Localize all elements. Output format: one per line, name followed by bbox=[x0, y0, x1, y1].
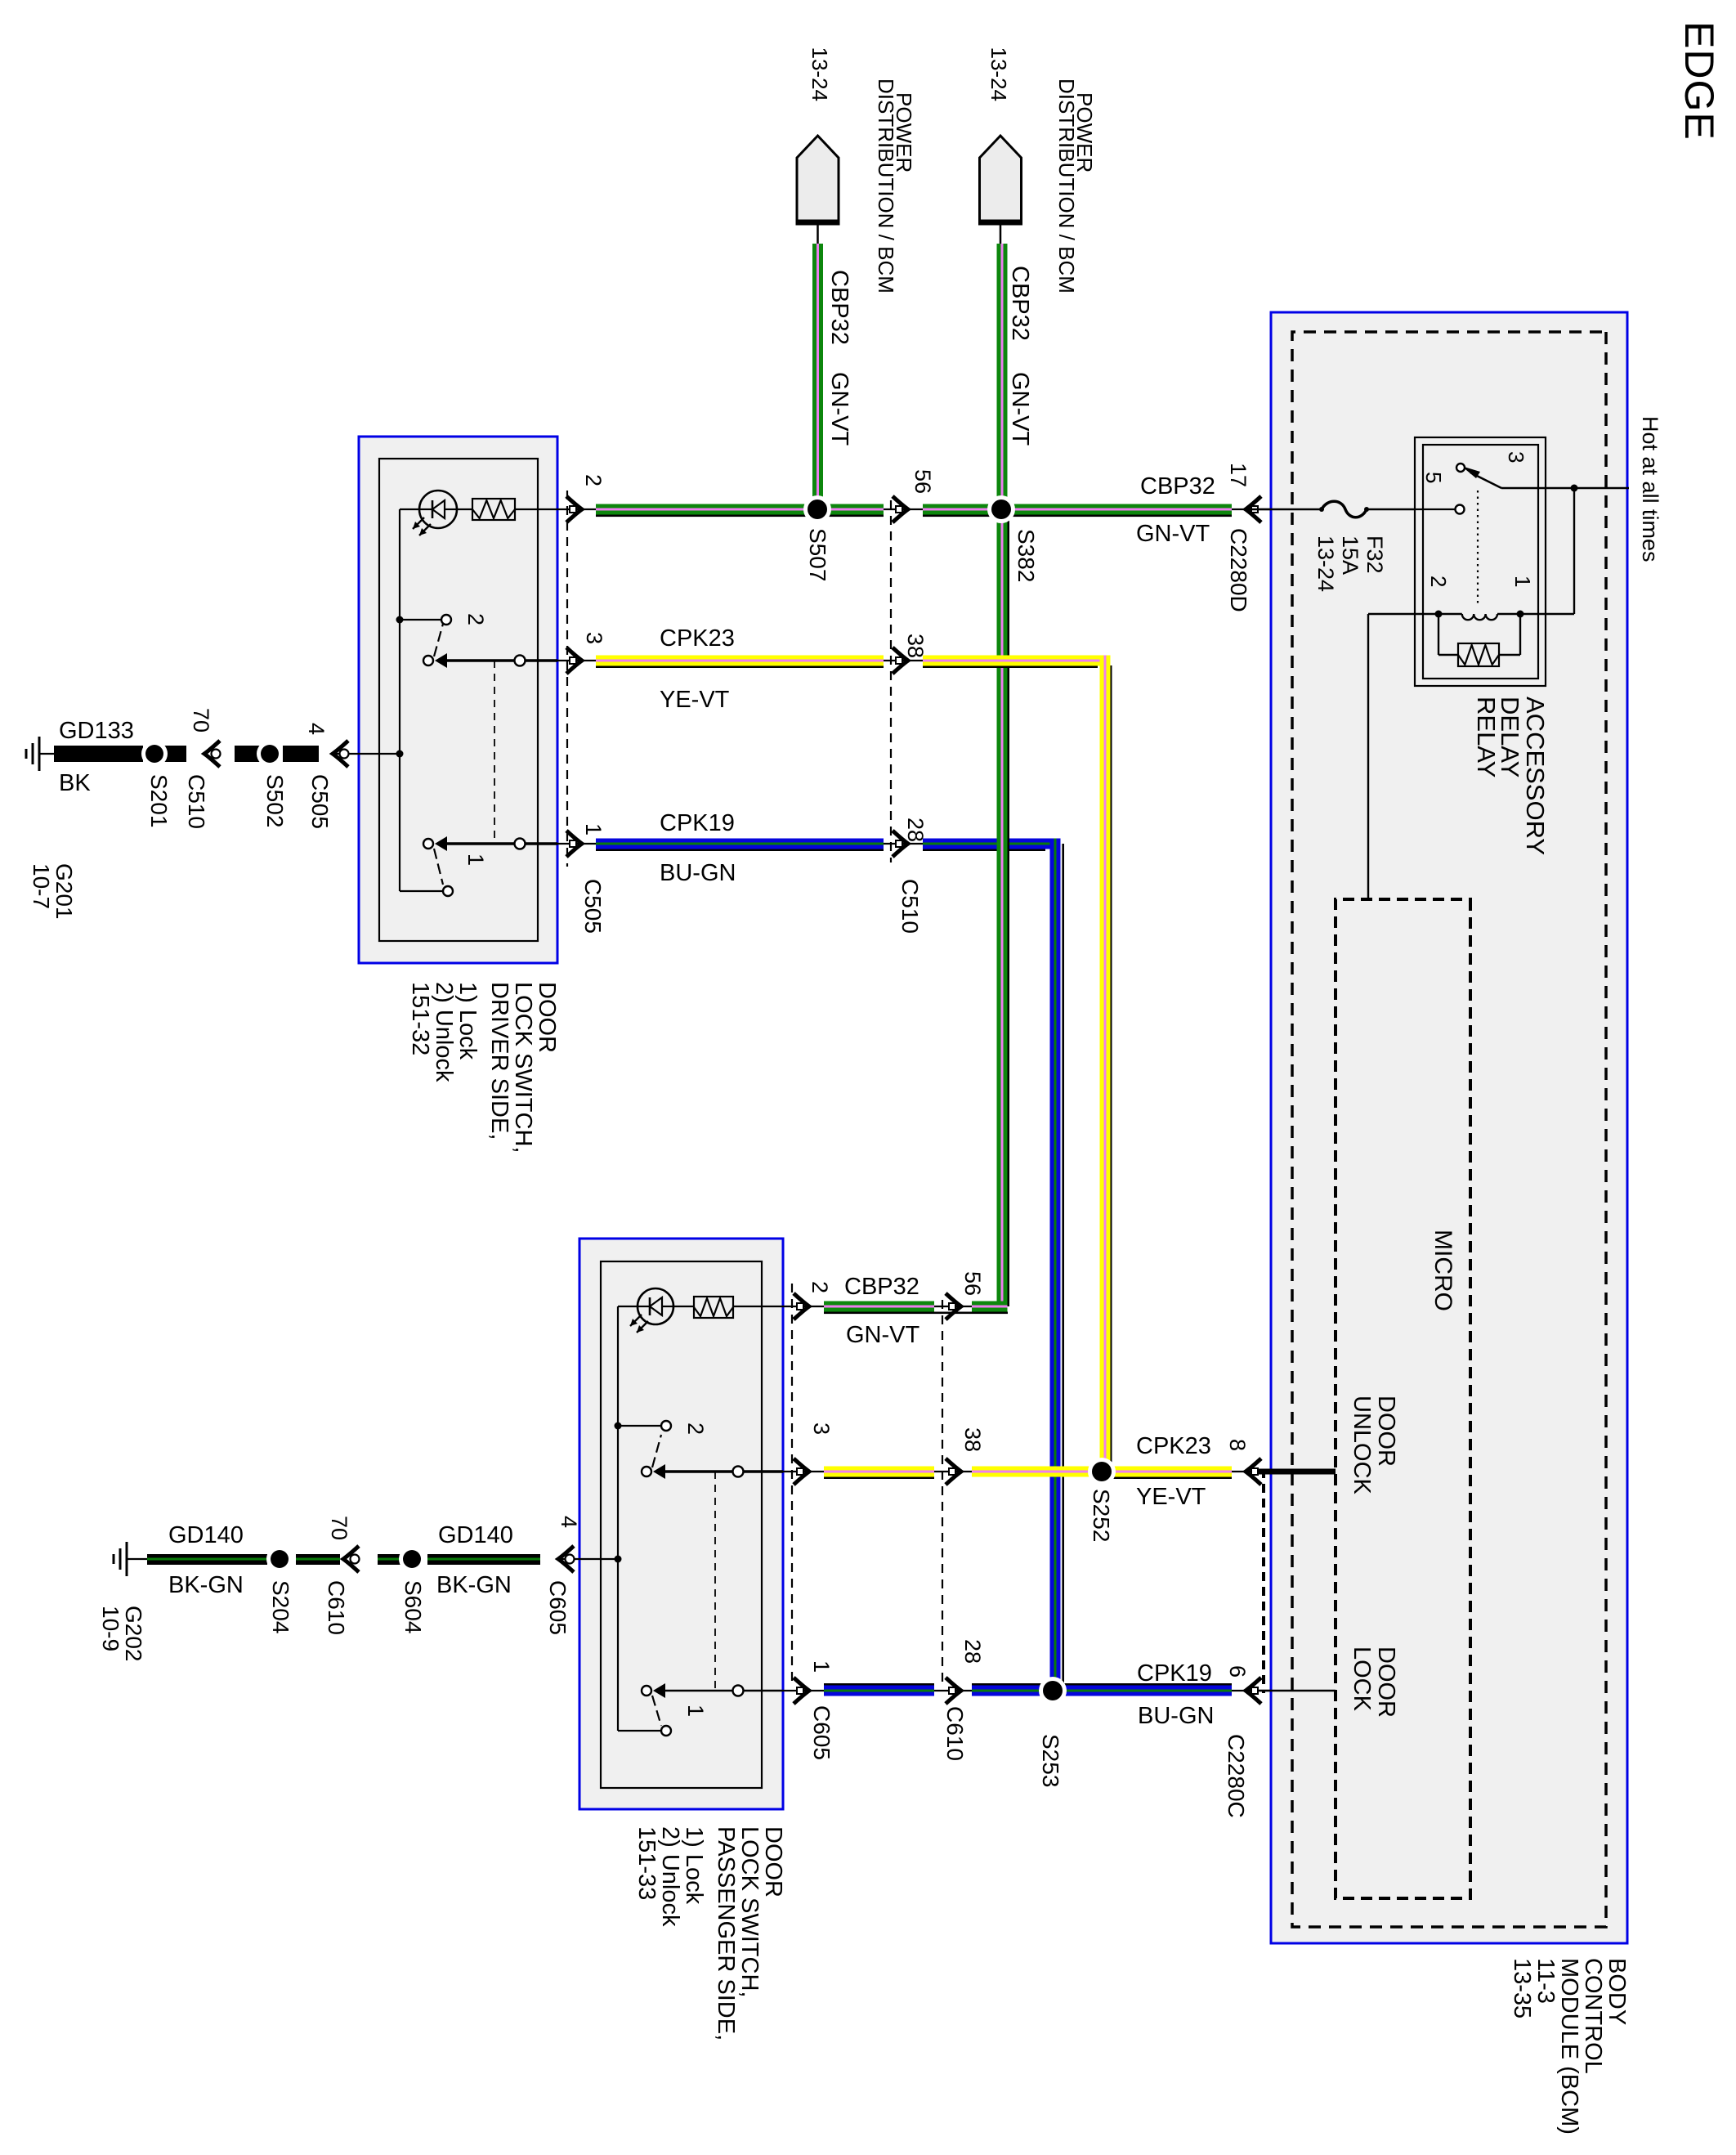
arrow 17 C2280D bbox=[1246, 496, 1261, 522]
svg-text:3: 3 bbox=[1504, 451, 1528, 463]
svg-text:CPK19: CPK19 bbox=[660, 810, 735, 836]
wire CBP32 pentagon1 horizontal bbox=[812, 244, 823, 500]
passenger switch 1 throw corner bbox=[618, 1730, 661, 1732]
wire CPK23 horizontal run to S252 bbox=[1110, 665, 1112, 1478]
svg-text:CPK23: CPK23 bbox=[1136, 1433, 1211, 1459]
connector C605 dashed line bbox=[791, 1284, 793, 1681]
svg-text:1: 1 bbox=[1510, 576, 1535, 587]
connector arrow to POWER DISTRIBUTION/BCM (S507 feed) bbox=[797, 136, 839, 222]
arrow pin1 passenger bbox=[794, 1678, 809, 1704]
svg-text:MODULE (BCM): MODULE (BCM) bbox=[1556, 1958, 1582, 2135]
arrow 38 C510 bbox=[893, 647, 908, 674]
passenger switch 2 throw contact bbox=[661, 1421, 671, 1431]
svg-text:5: 5 bbox=[1421, 472, 1446, 483]
door lock switch driver side box bbox=[359, 437, 557, 963]
svg-text:11-3: 11-3 bbox=[1532, 1958, 1559, 2004]
wire CPK19 BU-GN driver vertical bbox=[557, 843, 596, 845]
node coil feed junction bbox=[1571, 485, 1578, 492]
svg-text:6: 6 bbox=[1225, 1665, 1250, 1678]
svg-text:C510: C510 bbox=[184, 774, 209, 829]
svg-text:3: 3 bbox=[809, 1422, 834, 1435]
svg-text:1: 1 bbox=[581, 823, 606, 836]
svg-text:LOCK: LOCK bbox=[1349, 1646, 1375, 1712]
splice S252 bbox=[1088, 1458, 1116, 1485]
svg-text:S604: S604 bbox=[400, 1580, 426, 1633]
wire stub pentagon1 bbox=[817, 222, 819, 245]
wire GD140 BK-GN ground chain bbox=[558, 1558, 579, 1560]
svg-text:C510: C510 bbox=[897, 879, 923, 934]
svg-text:UNLOCK: UNLOCK bbox=[1349, 1396, 1375, 1495]
relay pin2 wire to MICRO bbox=[1368, 613, 1438, 615]
svg-text:13-24: 13-24 bbox=[808, 47, 832, 102]
svg-text:2) Unlock: 2) Unlock bbox=[657, 1826, 683, 1927]
svg-text:13-24: 13-24 bbox=[1313, 535, 1338, 592]
BCM pin 6 stub DOOR LOCK bbox=[1258, 1690, 1336, 1692]
splice S507 bbox=[803, 495, 831, 523]
arrow 56 C610 bbox=[946, 1293, 961, 1319]
relay blade and pivot bbox=[1470, 473, 1501, 488]
wire CPK23 YE-VT driver vertical bbox=[557, 660, 596, 661]
svg-text:10-7: 10-7 bbox=[29, 863, 54, 909]
node bus-throw2 bbox=[396, 616, 404, 624]
svg-text:13-35: 13-35 bbox=[1509, 1958, 1535, 2018]
svg-text:S382: S382 bbox=[1013, 529, 1039, 582]
svg-text:56: 56 bbox=[911, 469, 935, 494]
svg-text:10-9: 10-9 bbox=[98, 1606, 123, 1651]
svg-text:S252: S252 bbox=[1089, 1489, 1114, 1542]
svg-text:C605: C605 bbox=[809, 1705, 834, 1760]
svg-text:S502: S502 bbox=[262, 774, 288, 827]
passenger internal dashed bbox=[714, 1472, 716, 1691]
wire stub pentagon2 bbox=[1000, 222, 1002, 245]
svg-text:CONTROL: CONTROL bbox=[1580, 1958, 1606, 2074]
arrow pin2 passenger bbox=[794, 1293, 809, 1319]
svg-text:GN-VT: GN-VT bbox=[1007, 372, 1033, 446]
MICRO dashed box bbox=[1336, 899, 1470, 1898]
wire CBP32 passenger vertical feed bbox=[824, 1312, 1008, 1315]
svg-text:13-24: 13-24 bbox=[987, 47, 1011, 102]
svg-text:S253: S253 bbox=[1038, 1734, 1063, 1787]
splice S382 bbox=[987, 495, 1015, 523]
svg-text:2: 2 bbox=[463, 613, 488, 625]
hot feed wire from Hot at all times bbox=[1501, 487, 1629, 489]
svg-text:S201: S201 bbox=[146, 774, 172, 827]
svg-text:C2280D: C2280D bbox=[1226, 528, 1251, 612]
in-line connector C610 ground bbox=[343, 1546, 359, 1572]
relay armature dotted line bbox=[1477, 491, 1479, 607]
body control module BCM box bbox=[1271, 312, 1627, 1943]
relay switch contact pin5 bbox=[1415, 509, 1455, 510]
svg-text:151-33: 151-33 bbox=[633, 1826, 660, 1900]
driver switch 1 (lock) bbox=[423, 839, 433, 849]
relay resistor parallel bbox=[1519, 614, 1521, 655]
passenger ground pin4 line bbox=[579, 1558, 618, 1560]
svg-text:ACCESSORY: ACCESSORY bbox=[1521, 697, 1550, 855]
svg-text:GD140: GD140 bbox=[168, 1522, 244, 1548]
wire CPK19 horizontal run to S253 bbox=[1062, 844, 1064, 1691]
svg-text:C2280C: C2280C bbox=[1224, 1734, 1249, 1818]
svg-text:S204: S204 bbox=[268, 1580, 293, 1633]
splice S502 bbox=[257, 741, 283, 767]
arrow 28 C510 bbox=[893, 831, 908, 857]
in-line connector C510 ground bbox=[204, 741, 220, 767]
splice S204 bbox=[266, 1546, 293, 1572]
svg-text:1) Lock: 1) Lock bbox=[454, 982, 481, 1060]
svg-text:DISTRIBUTION / BCM: DISTRIBUTION / BCM bbox=[874, 78, 898, 293]
splice S604 bbox=[399, 1546, 425, 1572]
arrow pin1 driver bbox=[566, 831, 582, 857]
ground G201 bbox=[38, 753, 40, 755]
arrow 28 C610 bbox=[946, 1678, 961, 1704]
driver LED chain bbox=[515, 509, 557, 510]
svg-text:GD140: GD140 bbox=[438, 1522, 513, 1548]
arrow 38 C610 bbox=[946, 1458, 961, 1485]
svg-text:DISTRIBUTION / BCM: DISTRIBUTION / BCM bbox=[1054, 78, 1079, 293]
svg-text:C605: C605 bbox=[545, 1580, 570, 1635]
svg-text:BK-GN: BK-GN bbox=[436, 1572, 512, 1598]
arrow 6 C2280C bbox=[1246, 1678, 1261, 1704]
connector arrow 4/C605 passenger bbox=[558, 1546, 574, 1572]
svg-text:CBP32: CBP32 bbox=[844, 1274, 919, 1300]
arrow pin3 passenger bbox=[794, 1458, 809, 1485]
svg-text:3: 3 bbox=[582, 632, 606, 644]
svg-text:DOOR: DOOR bbox=[1373, 1646, 1399, 1718]
driver switch 2 throw contact bbox=[441, 615, 451, 625]
node bus-throw2 passenger bbox=[615, 1422, 622, 1430]
svg-text:DRIVER SIDE,: DRIVER SIDE, bbox=[486, 982, 512, 1140]
svg-text:1) Lock: 1) Lock bbox=[681, 1826, 707, 1905]
svg-text:DOOR: DOOR bbox=[1373, 1396, 1399, 1467]
accessory delay relay box bbox=[1415, 437, 1546, 686]
wire CPK19 BCM vertical (pin 6) bbox=[1232, 1690, 1271, 1691]
svg-text:C610: C610 bbox=[942, 1706, 968, 1761]
svg-text:56: 56 bbox=[960, 1271, 985, 1296]
arrow pin2 driver bbox=[566, 496, 582, 522]
svg-text:151-32: 151-32 bbox=[407, 982, 433, 1055]
driver switch 1 throw corner bbox=[400, 890, 443, 892]
svg-text:G202: G202 bbox=[121, 1606, 146, 1662]
splice S253 bbox=[1039, 1677, 1067, 1705]
svg-text:BU-GN: BU-GN bbox=[1138, 1703, 1214, 1729]
svg-text:C610: C610 bbox=[324, 1580, 349, 1635]
svg-text:2: 2 bbox=[808, 1281, 832, 1293]
connector arrow 4/C505 driver bbox=[333, 741, 348, 767]
passenger LED chain bbox=[733, 1306, 783, 1307]
svg-text:G201: G201 bbox=[51, 863, 77, 920]
svg-text:1: 1 bbox=[683, 1705, 708, 1717]
svg-text:GD133: GD133 bbox=[59, 718, 134, 744]
connector C505 dashed line bbox=[566, 491, 568, 867]
svg-text:BU-GN: BU-GN bbox=[660, 860, 736, 886]
svg-text:PASSENGER SIDE,: PASSENGER SIDE, bbox=[713, 1826, 739, 2041]
svg-text:YE-VT: YE-VT bbox=[660, 687, 730, 713]
svg-text:1: 1 bbox=[463, 853, 488, 866]
passenger switch 2 (unlock) bbox=[642, 1467, 651, 1476]
wire CBP32 GN-VT main vertical bbox=[1232, 509, 1271, 510]
svg-text:DOOR: DOOR bbox=[534, 982, 560, 1053]
svg-text:GN-VT: GN-VT bbox=[826, 372, 852, 446]
passenger switch 1 (lock) bbox=[642, 1686, 651, 1696]
connector C510 dashed line bbox=[890, 500, 892, 862]
wire GD133 BK ground chain bbox=[333, 753, 359, 755]
driver switch 2 (unlock) bbox=[423, 656, 433, 665]
svg-text:8: 8 bbox=[1225, 1439, 1250, 1451]
svg-text:EDGE: EDGE bbox=[1676, 21, 1722, 141]
svg-text:DOOR: DOOR bbox=[760, 1826, 786, 1897]
connector C610 dashed line bbox=[942, 1300, 943, 1688]
svg-text:F32: F32 bbox=[1362, 535, 1387, 574]
svg-text:4: 4 bbox=[304, 723, 329, 735]
door lock switch passenger side box bbox=[579, 1239, 783, 1809]
svg-text:CPK19: CPK19 bbox=[1137, 1660, 1212, 1687]
svg-text:70: 70 bbox=[327, 1516, 351, 1540]
svg-text:BK-GN: BK-GN bbox=[168, 1572, 244, 1598]
driver internal bus bbox=[399, 509, 400, 891]
svg-text:YE-VT: YE-VT bbox=[1136, 1484, 1206, 1510]
svg-text:4: 4 bbox=[557, 1516, 581, 1528]
svg-text:28: 28 bbox=[960, 1639, 985, 1664]
BCM outer dashed box bbox=[1292, 332, 1606, 1927]
svg-text:2: 2 bbox=[683, 1422, 708, 1435]
svg-text:Hot at all times: Hot at all times bbox=[1638, 416, 1662, 562]
svg-text:1: 1 bbox=[809, 1660, 834, 1673]
svg-text:BODY: BODY bbox=[1604, 1958, 1630, 2025]
arrow 8 BCM bbox=[1246, 1458, 1261, 1485]
BCM pin 8 stub DOOR UNLOCK bbox=[1258, 1469, 1336, 1475]
svg-text:CBP32: CBP32 bbox=[826, 270, 852, 345]
node bus-ground bbox=[396, 750, 404, 758]
svg-text:LOCK SWITCH,: LOCK SWITCH, bbox=[736, 1826, 763, 1997]
svg-text:CBP32: CBP32 bbox=[1140, 473, 1215, 500]
svg-text:28: 28 bbox=[903, 818, 928, 842]
connector arrow to POWER DISTRIBUTION/BCM (S382 feed) bbox=[980, 136, 1022, 222]
svg-text:70: 70 bbox=[189, 708, 213, 733]
svg-text:C505: C505 bbox=[307, 774, 333, 829]
svg-text:GN-VT: GN-VT bbox=[846, 1322, 920, 1348]
svg-text:CBP32: CBP32 bbox=[1007, 266, 1033, 341]
fuse F32 15A bbox=[1246, 509, 1322, 510]
ground G202 bbox=[126, 1558, 128, 1560]
node bus-ground passenger bbox=[615, 1556, 622, 1563]
driver ground pin4 line bbox=[359, 753, 400, 755]
svg-text:38: 38 bbox=[960, 1427, 985, 1452]
svg-text:2) Unlock: 2) Unlock bbox=[431, 982, 457, 1082]
svg-text:C505: C505 bbox=[580, 879, 606, 934]
wire CBP32 pentagon2/S382 horizontal branch bbox=[1007, 519, 1009, 1306]
connector C2280C dashed bracket bbox=[1262, 1469, 1265, 1693]
passenger internal bus bbox=[617, 1306, 619, 1731]
svg-text:GN-VT: GN-VT bbox=[1136, 521, 1210, 547]
svg-text:LOCK SWITCH,: LOCK SWITCH, bbox=[510, 982, 536, 1153]
svg-text:2: 2 bbox=[581, 474, 606, 486]
svg-text:17: 17 bbox=[1226, 463, 1251, 487]
svg-text:CPK23: CPK23 bbox=[660, 625, 735, 652]
svg-text:BK: BK bbox=[59, 770, 91, 796]
driver internal dashed bbox=[494, 661, 495, 844]
svg-text:MICRO: MICRO bbox=[1430, 1230, 1456, 1311]
splice S201 bbox=[141, 741, 168, 767]
relay coil bbox=[1497, 613, 1520, 615]
arrow pin3 driver bbox=[566, 647, 582, 674]
arrow 56 C510 bbox=[893, 496, 908, 522]
wire CPK23 BCM vertical (pin 8) bbox=[1232, 1471, 1271, 1472]
svg-text:S507: S507 bbox=[805, 528, 830, 581]
svg-text:38: 38 bbox=[903, 634, 928, 658]
svg-text:15A: 15A bbox=[1338, 535, 1362, 575]
relay coil feed branch bbox=[1573, 488, 1575, 614]
svg-text:2: 2 bbox=[1426, 576, 1451, 587]
svg-text:RELAY: RELAY bbox=[1472, 697, 1501, 777]
